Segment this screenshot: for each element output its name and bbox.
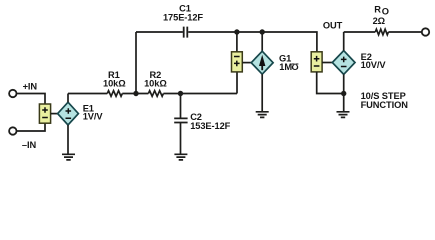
wire E1 to R1 <box>68 93 107 95</box>
svg-text:10V/V: 10V/V <box>361 60 387 70</box>
svg-text:+IN: +IN <box>23 81 38 91</box>
capacitor C1 <box>184 27 188 38</box>
wire riser node to C1 rail <box>135 32 137 94</box>
wire R2 to G1 control box <box>163 72 237 94</box>
E2 control port box (+ top, - bottom) <box>311 52 322 72</box>
wire E2 riser to OUT rail <box>343 32 345 51</box>
wire E2 box bottom to output node <box>317 72 344 94</box>
svg-text:10kΩ: 10kΩ <box>103 79 126 89</box>
resistor R1 <box>107 91 122 97</box>
wire stub E2 box to diamond <box>322 62 332 64</box>
terminal +IN <box>9 90 16 97</box>
svg-text:175E-12F: 175E-12F <box>163 13 203 23</box>
wire stub E1 box to diamond <box>51 113 58 115</box>
ground (C2) <box>174 154 187 160</box>
svg-text:10kΩ: 10kΩ <box>144 79 167 89</box>
output stage source E2 (VCVS diamond) <box>332 51 355 75</box>
op-amp input stage source E1 (VCVS diamond) <box>58 102 79 125</box>
ground (E1) <box>62 154 75 160</box>
resistor RO <box>375 29 388 35</box>
svg-text:Ω: Ω <box>291 61 299 71</box>
wire G1 diamond to ground <box>261 74 263 112</box>
E1 control port box (+ top, - bottom) <box>39 104 50 123</box>
wire E1 output riser <box>67 94 69 103</box>
svg-text:1M: 1M <box>279 62 292 72</box>
resistor R2 <box>148 91 163 97</box>
svg-text:–IN: –IN <box>22 140 37 150</box>
capacitor C2 <box>174 94 187 155</box>
junction node G1 box top <box>234 29 239 34</box>
wire R1 to R2 <box>122 93 148 95</box>
svg-text:FUNCTION: FUNCTION <box>361 100 409 110</box>
G1 control port box (- top, + bottom) <box>232 52 243 72</box>
transconductance source G1 (VCCS diamond, arrow up) <box>251 51 273 74</box>
wire G1 box riser <box>236 32 238 52</box>
terminal -IN <box>9 127 16 134</box>
wire OUT rail <box>344 31 422 33</box>
ground (E2) <box>337 112 350 118</box>
wire -IN to E1 control box <box>17 123 45 131</box>
wire top rail (C1 net) <box>136 32 317 52</box>
wire G1 diamond riser <box>261 32 263 51</box>
junction node E2 bottom <box>341 91 346 96</box>
svg-text:153E-12F: 153E-12F <box>190 121 230 131</box>
svg-text:1V/V: 1V/V <box>83 112 104 122</box>
junction node G1 diamond top <box>260 29 265 34</box>
wire stub G1 box to diamond <box>242 62 251 64</box>
terminal OUT <box>422 28 429 35</box>
wire E1 diamond to ground <box>67 125 69 154</box>
ground (G1) <box>256 112 269 118</box>
junction node at R1/R2 <box>133 91 138 96</box>
svg-text:2Ω: 2Ω <box>373 16 386 26</box>
svg-text:R: R <box>374 4 381 14</box>
wire +IN to E1 control box <box>17 94 45 105</box>
junction node at C2 tap <box>178 91 183 96</box>
svg-text:OUT: OUT <box>323 20 343 30</box>
wire E2 bottom to ground <box>343 74 345 111</box>
